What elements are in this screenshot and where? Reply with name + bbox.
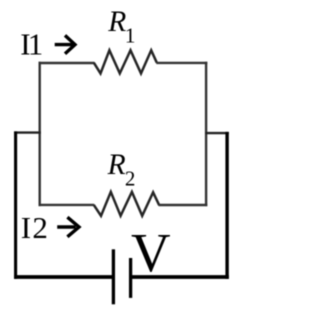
wire: outer loop right stub (junction node) bbox=[205, 132, 229, 134]
resistor R1 bbox=[94, 50, 157, 73]
current arrow I2 bbox=[57, 217, 79, 237]
wire: top branch left segment bbox=[39, 62, 95, 64]
current arrow I1 bbox=[55, 35, 75, 53]
svg-text:V: V bbox=[131, 222, 171, 283]
svg-text:I2: I2 bbox=[21, 210, 49, 245]
battery V long plate bbox=[112, 249, 115, 304]
wire: bottom right segment bbox=[132, 275, 229, 279]
svg-text:2: 2 bbox=[125, 166, 135, 190]
resistor R2 bbox=[94, 192, 159, 216]
wire: inner loop left vertical bbox=[39, 62, 41, 206]
svg-text:I1: I1 bbox=[20, 27, 42, 62]
wire: R2 branch left segment bbox=[39, 204, 95, 206]
wire: outer loop right vertical bbox=[225, 132, 228, 279]
wire: bottom left segment bbox=[14, 275, 112, 279]
svg-text:R: R bbox=[107, 149, 126, 181]
battery V short plate bbox=[129, 258, 132, 298]
svg-text:R: R bbox=[107, 6, 126, 38]
wire: outer loop left vertical bbox=[14, 131, 17, 278]
wire: outer loop left stub (junction node) bbox=[14, 131, 41, 133]
wire: top branch right segment bbox=[156, 62, 207, 64]
svg-text:1: 1 bbox=[125, 23, 136, 47]
wire: R2 branch right segment bbox=[159, 204, 208, 206]
wire: inner loop right vertical bbox=[205, 62, 207, 206]
